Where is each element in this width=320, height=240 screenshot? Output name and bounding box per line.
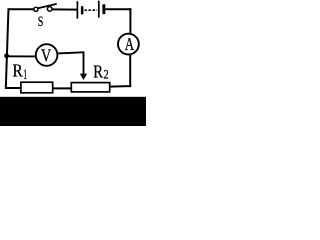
slider arrowhead on R2: [80, 74, 87, 80]
resistor R1: [21, 82, 53, 93]
resistor R2: [71, 83, 109, 92]
ammeter A: [118, 34, 139, 55]
svg-text:R: R: [93, 62, 103, 82]
wire: bottom-right horizontal to R2: [110, 85, 132, 88]
wire: voltmeter branch right: [58, 52, 83, 53]
wire: left vertical side: [6, 8, 9, 88]
wire: top-left horizontal segment: [8, 8, 34, 10]
switch S: [34, 4, 57, 11]
wire: battery to top-right corner: [105, 8, 131, 10]
wire: voltmeter branch left: [7, 55, 36, 57]
svg-text:1: 1: [23, 67, 27, 83]
wire: right vertical lower: [129, 55, 131, 87]
voltmeter V: [36, 44, 58, 66]
black bar (cropped region at bottom): [0, 97, 146, 126]
svg-text:V: V: [41, 45, 51, 65]
wire: bottom-left horizontal: [5, 87, 22, 89]
svg-text:S: S: [38, 13, 44, 30]
wire: slider drop: [83, 51, 85, 74]
svg-text:2: 2: [104, 67, 109, 81]
wire: right vertical upper: [129, 8, 131, 33]
svg-text:R: R: [13, 61, 23, 81]
svg-text:A: A: [125, 34, 134, 54]
node junction dot: [4, 53, 9, 58]
wire: switch to battery: [52, 8, 77, 10]
wire: between R1 and R2: [53, 87, 72, 89]
battery: [77, 1, 105, 19]
